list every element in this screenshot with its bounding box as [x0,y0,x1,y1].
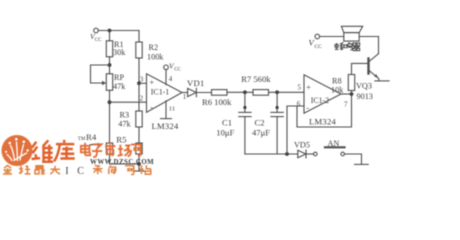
label RP [113,73,126,91]
ground pin11 [161,118,172,120]
char dian [81,143,90,156]
svg-text:47μF: 47μF [252,127,270,137]
node RP top junction [108,63,112,67]
resistor R5 [136,143,142,154]
resistor R6 [212,90,228,96]
wire IC1-2 output [341,93,352,95]
svg-text:4: 4 [169,75,173,83]
svg-text:100k: 100k [147,53,164,62]
watermark weiku text [32,140,75,162]
node Vcc terminal left [94,28,99,33]
svg-text:CC: CC [315,44,323,50]
label pin6 [297,100,301,108]
label pin4 [169,75,173,83]
resistor R7 [253,90,269,96]
svg-text:R5: R5 [116,135,127,145]
watermark slogan IC [65,166,84,177]
wire R1 top [109,31,111,41]
svg-text:6: 6 [297,100,301,108]
char quan [3,165,12,174]
diode VD1 [188,88,197,96]
label C1 [216,118,234,138]
wire VD1 to R6 [196,92,211,94]
label 9013 [357,92,373,101]
svg-text:LM324: LM324 [152,121,179,131]
svg-text:10k: 10k [331,85,344,94]
char wang [131,145,141,156]
node Vcc terminal pin4 [164,65,169,70]
svg-text:R6 100k: R6 100k [202,97,232,107]
wire collector up [378,37,380,54]
label pin11 [169,105,175,112]
char ku [54,140,75,162]
wire pin3 node to R3 [138,83,140,111]
wire RP wiper loop [91,65,110,85]
char shi [105,142,115,156]
label R5 [116,135,127,145]
label R3 [118,111,131,129]
watermark dianzi shichangwang [81,142,141,157]
wire R3 bottom to R5 [138,127,140,143]
op-amp U2 IC1-2 [304,75,341,113]
svg-text:LM324: LM324 [309,117,336,127]
svg-text:9013: 9013 [357,92,373,101]
wire pin3 stub [139,82,147,84]
label buzzer chinese 蜂鸣器 [335,42,360,50]
label IC1-2 [311,96,329,105]
wire IC1-1 output [182,92,188,94]
wire R1 bottom to RP [109,57,111,74]
ground left [134,170,145,172]
svg-text:R2: R2 [149,43,159,52]
label Vcc pin4 [169,62,182,73]
char wang2 [125,166,134,175]
label pin7 [344,101,348,109]
svg-text:I: I [65,166,68,176]
label C2 [252,118,270,138]
char chang [118,145,131,157]
char zhan [140,165,152,174]
wire VD5 to switch [306,153,314,155]
label AN [328,139,340,148]
char wei [32,140,54,162]
svg-text:IC1-2: IC1-2 [311,96,329,105]
node output junction [350,92,354,96]
node VD5 junction [285,152,289,156]
switch AN [314,147,345,156]
label R8 [331,77,344,95]
watermark logo [2,135,33,166]
node junction top R1 [108,29,112,33]
wire R4 bottom [109,154,111,164]
label pin3 [140,76,144,84]
label plus IC1-1 [150,78,155,87]
wire R2 top corner [138,31,140,43]
node pin3 junction [137,81,141,85]
resistor R3 [136,111,142,127]
wire output to R8 [351,91,353,95]
label Vcc right [309,38,323,51]
resistor R4 [106,143,112,154]
wire switch to ground [345,154,362,164]
svg-text:47k: 47k [113,82,126,91]
wire feedback IC1-2 [297,94,352,127]
node bottom rail junction [137,162,141,166]
wire RP bottom to R4 [109,90,111,143]
svg-text:TM: TM [78,137,86,142]
label LM324 IC1-1 [152,121,179,131]
label R4 [86,132,97,142]
svg-text:IC1-1: IC1-1 [151,88,169,97]
svg-text:C: C [77,166,84,176]
svg-text:RP: RP [114,73,124,82]
wire pin4 [165,70,167,85]
label LM324 IC1-2 [309,117,336,127]
char cai [93,166,103,175]
label pin1 [183,93,187,101]
buzzer speaker [341,26,362,41]
svg-text:VD1: VD1 [187,78,205,88]
label minus IC1-2 [306,104,309,113]
svg-text:CC: CC [95,38,102,43]
transistor Q3 VQ3 [369,54,379,81]
node Vcc terminal right [315,34,320,39]
char qiu [19,165,31,174]
svg-text:R3: R3 [120,111,130,120]
wire ground drop [138,164,140,171]
label R2 [147,43,164,62]
wire top rail [98,30,139,32]
label pin5 [298,84,302,92]
wire R2 bottom to pin3 node [138,58,140,83]
svg-text:VD5: VD5 [294,141,310,150]
node pin2 junction [108,100,112,104]
svg-text:R7 560k: R7 560k [241,74,271,84]
svg-text:30k: 30k [113,48,126,57]
label VD5 [294,141,310,150]
label VQ3 [356,82,372,91]
capacitor C1 [239,92,251,154]
wire riser to pin6 [287,106,304,154]
svg-text:C2: C2 [255,118,265,128]
char zi [92,144,102,157]
diode VD5 [298,150,306,158]
resistor R2 [136,42,142,58]
arrow R4 [90,143,102,147]
svg-text:VQ3: VQ3 [356,82,372,91]
svg-text:R4: R4 [86,132,97,142]
svg-text:C1: C1 [222,118,232,128]
svg-text:-: - [150,103,153,112]
node N1 [243,90,247,94]
svg-text:R8: R8 [332,77,342,86]
label VD1 [187,78,205,88]
label Vcc left [90,32,102,43]
char gou [109,166,116,175]
wire R7 to pin5 [269,91,305,93]
ground emitter [375,80,389,82]
wire pin11 [165,101,167,119]
label R6 100k [202,97,232,107]
svg-text:+: + [306,83,311,92]
label IC1-1 [151,88,169,97]
wire bottom rail R4 R5 [110,163,140,165]
wire speaker to collector [359,36,378,38]
svg-text:2: 2 [140,95,144,103]
resistor R1 [106,41,112,57]
wire Vcc2 to speaker [320,36,344,38]
svg-text:WWW.DZSC.COM: WWW.DZSC.COM [90,159,154,166]
svg-text:5: 5 [298,84,302,92]
watermark url [90,159,154,166]
svg-text:AN: AN [328,139,340,148]
op-amp U1 IC1-1 [147,74,183,113]
svg-text:11: 11 [169,105,175,112]
potentiometer RP [106,74,112,91]
watermark slogan [3,165,60,174]
resistor R8 [348,75,354,91]
svg-text:7: 7 [344,101,348,109]
svg-text:10μF: 10μF [216,127,234,137]
svg-text:+: + [150,78,155,87]
node N2 [275,90,279,94]
svg-text:47k: 47k [118,120,131,129]
watermark TM [78,137,86,142]
label minus IC1-1 [150,103,153,112]
svg-text:-: - [306,104,309,113]
char zui [35,166,45,174]
svg-text:3: 3 [140,76,144,84]
wire bottom line caps to VD5 [245,153,298,155]
label R1 [113,40,126,57]
label plus IC1-2 [306,83,311,92]
label pin2 [140,95,144,103]
wire R5 bottom [138,154,140,164]
wire R8 to base [352,63,368,74]
wire R6 to node C1 [227,91,253,93]
svg-text:1: 1 [183,93,187,101]
wire pin2 [110,101,147,103]
svg-text:CC: CC [174,68,181,73]
capacitor C2 [271,92,283,154]
char da [50,166,60,174]
label R7 560k [241,74,271,84]
ground right [355,163,369,165]
